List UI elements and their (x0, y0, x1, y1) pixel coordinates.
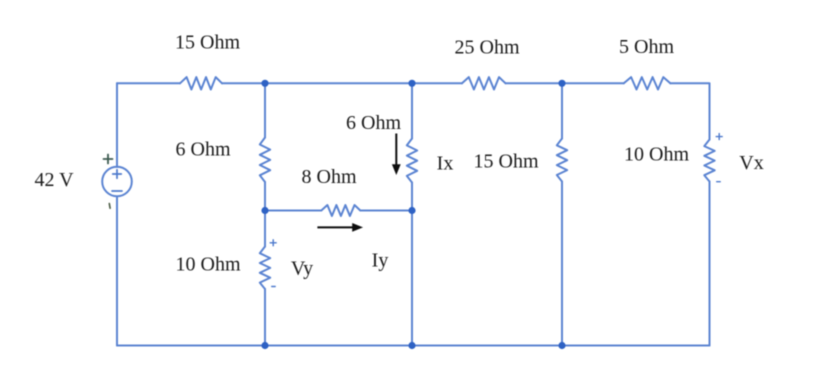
svg-text:8 Ohm: 8 Ohm (302, 166, 357, 188)
svg-text:10 Ohm: 10 Ohm (624, 144, 689, 166)
voltage source V1 minus sign (inside bottom) (112, 190, 122, 192)
node dot H (bottom rail / branch3) (558, 342, 565, 349)
Vx polarity minus (717, 181, 721, 183)
wire branch2 lower (411, 183, 413, 346)
source external minus tick (108, 204, 111, 209)
Vy polarity plus (270, 134, 722, 287)
wire branch3 upper (561, 83, 563, 138)
svg-text:6 Ohm: 6 Ohm (176, 139, 231, 161)
wire branch3 lower (561, 182, 563, 346)
resistor R3 5 Ohm (top right) (624, 77, 671, 89)
wire bottom rail (117, 345, 710, 347)
node dot C (top rail / branch3) (558, 80, 565, 87)
wire 8 Ohm branch right segment (360, 210, 412, 212)
svg-text:15 Ohm: 15 Ohm (474, 151, 539, 173)
wire top rail segment 1 (117, 82, 180, 84)
resistor R1 15 Ohm (top left) (180, 77, 222, 89)
svg-text:6 Ohm: 6 Ohm (346, 112, 401, 134)
arrow Iy (rightward current arrow) (317, 223, 363, 232)
arrow Ix (downward current arrow) (392, 134, 401, 176)
svg-text:15 Ohm: 15 Ohm (175, 32, 240, 54)
node dot B (top rail / branch2) (408, 80, 415, 87)
voltage source V1 plus sign (inside top) (112, 170, 122, 191)
node dot D (branch1 / 8 Ohm) (261, 207, 268, 214)
wire branch1 lower (264, 289, 266, 346)
resistor R9 15 Ohm (branch 3) (557, 139, 567, 182)
node dot G (bottom rail / branch2) (408, 342, 415, 349)
Vy polarity minus (272, 286, 276, 288)
node dot A (top rail / branch1) (261, 80, 565, 349)
source external plus mark (104, 155, 113, 164)
Vx polarity plus (716, 134, 722, 140)
wire 8 Ohm branch left segment (265, 210, 321, 212)
resistor R8 8 Ohm (horizontal, Iy) (321, 205, 360, 216)
resistor R4 10 Ohm (right, Vx) (704, 140, 714, 182)
svg-text:25 Ohm: 25 Ohm (455, 37, 520, 59)
resistor R5 6 Ohm (branch 1 upper) (260, 138, 270, 183)
svg-text:42 V: 42 V (35, 169, 75, 191)
svg-text:5 Ohm: 5 Ohm (619, 36, 674, 58)
voltage source V1 42V circle (102, 167, 132, 197)
wire right rail lower (709, 182, 711, 346)
wire left rail (top corner to source, source to bottom corner) (116, 83, 118, 167)
svg-text:Vy: Vy (291, 258, 313, 280)
wire branch2 upper (411, 83, 413, 138)
resistor R7 6 Ohm (branch 2, Ix) (407, 139, 417, 183)
svg-text:Vx: Vx (739, 152, 763, 174)
wire top rail segment 4 to right corner (670, 83, 709, 139)
node dot F (bottom rail / branch1) (261, 342, 268, 349)
wire branch1 upper (264, 83, 266, 137)
node dot E (branch2 / 8 Ohm) (408, 207, 415, 214)
wire top rail segment 2 (222, 82, 462, 84)
resistor R2 25 Ohm (top middle) (462, 77, 506, 89)
svg-text:Iy: Iy (372, 250, 389, 272)
svg-text:Ix: Ix (437, 153, 454, 175)
svg-text:10 Ohm: 10 Ohm (176, 254, 241, 276)
wire top rail segment 3 (506, 82, 624, 84)
resistor R6 10 Ohm (branch 1 lower, Vy) (260, 247, 270, 290)
wire branch1 middle (264, 182, 266, 247)
